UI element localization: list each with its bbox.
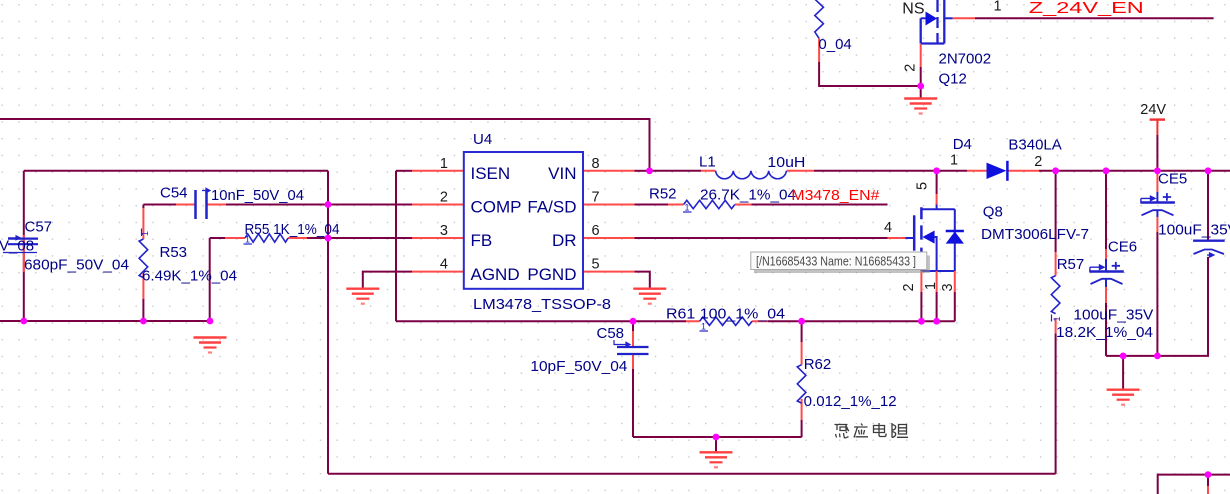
capacitor CE6 (1073, 239, 1153, 324)
svg-text:PGND: PGND (527, 265, 576, 284)
resistor R57 (1051, 252, 1153, 341)
svg-text:DMT3006LFV-7: DMT3006LFV-7 (981, 226, 1089, 243)
wire C57 branch (23, 171, 25, 321)
U4 pin stubs (412, 171, 635, 272)
svg-text:FA/SD: FA/SD (527, 198, 576, 217)
wire C58 branch (632, 321, 634, 437)
svg-text:NS: NS (902, 0, 924, 17)
wire L1 to D4 anode (814, 170, 967, 172)
svg-text:4: 4 (440, 257, 448, 273)
svg-text:1: 1 (685, 203, 690, 213)
svg-text:FB: FB (471, 231, 493, 250)
wire ISEN column down (395, 171, 397, 321)
svg-text:1: 1 (701, 322, 706, 332)
U4 pin numbers (440, 156, 600, 273)
capacitor C58 (530, 325, 648, 375)
svg-text:10pF_50V_04: 10pF_50V_04 (530, 358, 627, 375)
svg-text:U4: U4 (473, 131, 492, 148)
wire top-left horizontal (24, 170, 328, 172)
wire ground stem mid (715, 437, 717, 452)
wire FA/SD to R52 (635, 204, 669, 206)
wire bottom rail (328, 473, 1056, 475)
svg-text:3: 3 (440, 223, 448, 239)
ground (AGND) (346, 289, 379, 304)
svg-text:Q8: Q8 (983, 204, 1003, 221)
svg-text:B340LA: B340LA (1008, 137, 1061, 154)
capacitor C57 (0, 219, 129, 274)
power port 24V (1140, 102, 1166, 171)
wire top rail to VIN (0, 119, 650, 171)
svg-text:1: 1 (994, 0, 1002, 15)
svg-text:VIN: VIN (548, 164, 576, 183)
ground (left rail) (194, 338, 227, 353)
wire DR to Q8 gate (635, 237, 888, 239)
wire COMP row (143, 204, 412, 206)
capacitor C54 (160, 185, 304, 220)
svg-text:R61 100_1%_04: R61 100_1%_04 (666, 305, 785, 322)
op-amp U4 LM3478 body (464, 152, 583, 289)
svg-text:D4: D4 (953, 136, 972, 153)
wire CE5 branch (1156, 232, 1158, 356)
wire ISEN pin left (396, 170, 412, 172)
svg-text:2: 2 (903, 64, 919, 72)
svg-text:1: 1 (950, 152, 958, 168)
svg-text:0.012_1%_12: 0.012_1%_12 (804, 393, 897, 410)
svg-text:DR: DR (552, 231, 577, 250)
svg-text:2: 2 (901, 283, 917, 291)
svg-text:C57: C57 (25, 219, 53, 236)
svg-text:10uH: 10uH (767, 154, 805, 171)
wire Q8 drain up (936, 171, 938, 194)
wire left ground rail (0, 320, 212, 322)
svg-text:0_04: 0_04 (818, 36, 851, 53)
svg-text:R57: R57 (1057, 256, 1085, 273)
wire bottom right stub down (1207, 475, 1209, 486)
wire Q8 pin2 down (920, 292, 922, 321)
wire vertical FB/COMP column (327, 171, 329, 474)
svg-text:2N7002: 2N7002 (939, 51, 992, 68)
svg-text:2: 2 (1034, 154, 1042, 170)
wire right cap branch (1207, 171, 1209, 356)
wire Q8 pin1 down (936, 292, 938, 321)
wire right ground stem (1122, 356, 1124, 389)
wire Q8 pin3 down (954, 292, 956, 321)
wire R62 branch (801, 321, 803, 437)
resistor R52 (649, 186, 796, 213)
svg-text:1: 1 (140, 231, 150, 236)
wire AGND to ground (363, 272, 412, 288)
Chinese note gan ying dian zu (drawn as strokes) (835, 423, 909, 438)
svg-text:C58: C58 (597, 325, 625, 342)
wire Q12 source to ground (920, 67, 922, 98)
wire CE6 branch (1105, 171, 1107, 356)
ground (sense bottom) (700, 452, 733, 467)
pin stub bottom right (1207, 486, 1209, 494)
wire bottom right net (1158, 475, 1230, 494)
capacitor CE5 (1141, 171, 1230, 239)
svg-text:100uF_35V: 100uF_35V (1073, 307, 1153, 324)
wire sense rail (396, 320, 955, 322)
wire D4 cathode to right edge (1039, 170, 1230, 172)
transistor Q12 2N7002 (902, 0, 1001, 88)
svg-text:R62: R62 (804, 356, 832, 373)
svg-text:CE6: CE6 (1108, 239, 1137, 256)
svg-text:10nF_50V_04: 10nF_50V_04 (211, 187, 304, 204)
svg-text:100uF_35V: 100uF_35V (1158, 222, 1230, 239)
wire bottom sense (633, 436, 802, 438)
inductor L1 (699, 153, 814, 178)
svg-text:6.49K_1%_04: 6.49K_1%_04 (142, 268, 237, 285)
wire Q12 drain net Z_24V_EN (975, 17, 1214, 19)
tooltip overlay N16685433 (751, 252, 930, 273)
svg-text:COMP: COMP (471, 198, 522, 217)
svg-text:1: 1 (1052, 316, 1062, 321)
diode D4 B340LA (950, 136, 1062, 181)
svg-text:18.2K_1%_04: 18.2K_1%_04 (1056, 324, 1153, 341)
ground (Q12) (904, 99, 937, 114)
svg-text:Z_24V_EN: Z_24V_EN (1029, 0, 1144, 17)
svg-text:6: 6 (592, 223, 600, 239)
ground (CE5/CE6 bus) (1107, 390, 1140, 405)
resistor R62 (797, 342, 896, 420)
wire VIN pin to junction (635, 170, 650, 172)
resistor R53 (139, 208, 237, 299)
svg-text:24V: 24V (1140, 102, 1166, 118)
wire R52 to net label end (751, 204, 887, 206)
wire resistor 0_04 to Q12 source (819, 62, 921, 86)
svg-text:AGND: AGND (471, 265, 520, 284)
svg-text:R52: R52 (649, 186, 677, 203)
wire PGND to ground (635, 272, 650, 288)
svg-text:M3478_EN#: M3478_EN# (791, 187, 880, 204)
svg-text:C54: C54 (160, 185, 188, 202)
svg-text:4: 4 (884, 220, 892, 236)
wire FB row (210, 237, 412, 239)
svg-text:1: 1 (440, 156, 448, 172)
resistor 0_04 (cropped top) (815, 0, 852, 62)
ground (PGND) (633, 289, 666, 304)
capacitor right edge (cropped) (1193, 241, 1225, 258)
svg-text:3: 3 (940, 283, 956, 291)
svg-text:[/N16685433 Name: N16685433 ]: [/N16685433 Name: N16685433 ] (756, 254, 916, 268)
resistor R61 (666, 305, 785, 331)
svg-text:1: 1 (923, 282, 939, 290)
wire R55 left down (209, 238, 211, 321)
svg-text:R55 1K_1%_04: R55 1K_1%_04 (245, 221, 340, 238)
svg-text:680pF_50V_04: 680pF_50V_04 (24, 257, 129, 274)
wire VIN junction to L1 (650, 170, 702, 172)
svg-text:LM3478_TSSOP-8: LM3478_TSSOP-8 (473, 296, 611, 313)
svg-text:8: 8 (592, 156, 600, 172)
wire R53 column (142, 205, 144, 322)
svg-text:26.7K_1%_04: 26.7K_1%_04 (700, 187, 796, 204)
svg-text:R53: R53 (160, 244, 188, 261)
transistor Q8 DMT3006LFV-7 (884, 182, 1089, 292)
svg-text:5: 5 (592, 257, 600, 273)
svg-text:7: 7 (592, 190, 600, 206)
svg-text:CE5: CE5 (1158, 171, 1187, 188)
svg-text:L1: L1 (699, 153, 716, 170)
svg-text:2: 2 (440, 190, 448, 206)
wire right ground bus (1106, 355, 1209, 357)
svg-text:Q12: Q12 (939, 71, 967, 88)
wire R57 column (1055, 171, 1057, 474)
resistor R55 (225, 221, 340, 245)
svg-text:5: 5 (915, 182, 931, 190)
svg-text:ISEN: ISEN (471, 164, 511, 183)
